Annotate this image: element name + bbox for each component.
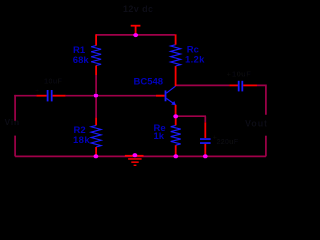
resistor Rc [171, 45, 181, 66]
wire pin Re bottom [175, 145, 177, 154]
node Re bottom junction [173, 154, 178, 158]
node C3 bottom junction [203, 154, 208, 158]
resistor R2 [91, 125, 101, 147]
resistor R1 [91, 46, 101, 66]
node base junction [94, 94, 99, 98]
svg-text:1k: 1k [154, 131, 165, 142]
resistor Re [171, 125, 181, 145]
wire output vertical lower [265, 136, 267, 157]
wire left input vertical upper [14, 95, 16, 121]
svg-text:BC548: BC548 [134, 76, 164, 87]
wire base node to transistor [99, 95, 156, 97]
ground [125, 155, 144, 166]
wire bypass corner down [204, 116, 206, 122]
node ground junction [133, 153, 138, 157]
svg-text:+: + [227, 70, 232, 79]
wire collector to output cap [177, 84, 230, 86]
node VCC supply terminal [131, 26, 141, 34]
svg-text:Vin: Vin [5, 117, 20, 127]
wire pin C3 top [204, 122, 206, 138]
wire pin emitter down [175, 105, 177, 115]
wire pin R1 bottom [95, 66, 97, 76]
wire bottom rail [15, 155, 266, 157]
capacitor C2 output [238, 81, 243, 92]
node R2 bottom junction [94, 154, 99, 158]
wire output corner [257, 85, 266, 114]
wire pin R2 bottom [95, 147, 97, 155]
wire emitter to bypass cap [178, 115, 206, 117]
transistor Q1 BC548 [165, 86, 176, 105]
wire pin Rc top [175, 34, 177, 44]
svg-text:18k: 18k [73, 135, 90, 146]
wire pin R1 top [95, 34, 97, 45]
wire pin R2 top [95, 118, 97, 126]
wire pin C2 right [243, 84, 257, 86]
wire left input vertical lower [14, 136, 16, 157]
svg-text:+: + [35, 88, 39, 95]
wire pin C1 right [53, 95, 66, 97]
svg-text:10uF: 10uF [232, 69, 251, 78]
svg-text:Vout: Vout [245, 119, 268, 129]
wire pin C1 left [36, 95, 46, 97]
wire R1 bottom to base node [95, 75, 97, 93]
wire C1 to base node [66, 95, 94, 97]
node junction at supply [133, 33, 138, 37]
svg-text:1.2k: 1.2k [185, 54, 205, 65]
svg-text:+: + [213, 133, 218, 142]
wire pin base [156, 95, 165, 97]
wire top rail [96, 34, 175, 36]
capacitor C1 input [47, 90, 53, 101]
wire base node down [95, 98, 97, 118]
svg-text:10uF: 10uF [44, 76, 63, 85]
wire pin C3 bottom [204, 144, 206, 155]
svg-text:12v dc: 12v dc [123, 4, 153, 14]
capacitor C3 bypass [200, 138, 211, 144]
svg-text:68k: 68k [73, 55, 90, 66]
wire pin C2 left [229, 84, 238, 86]
wire pin collector up [175, 66, 177, 86]
svg-text:220uF: 220uF [217, 137, 239, 146]
wire pin Re top [175, 119, 177, 126]
wire input loop top: left corner to cap [15, 94, 36, 97]
node emitter junction [173, 114, 178, 118]
